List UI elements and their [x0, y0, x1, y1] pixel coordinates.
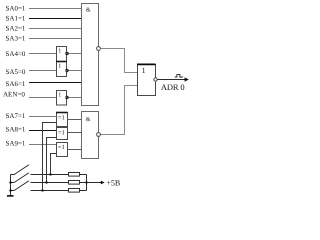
svg-text:ADR 0: ADR 0 [161, 82, 185, 92]
svg-text:=1: =1 [58, 129, 65, 136]
svg-text:=1: =1 [58, 114, 65, 121]
svg-text:SA5=0: SA5=0 [6, 68, 26, 76]
svg-text:&: & [86, 7, 91, 14]
svg-text:SA9=1: SA9=1 [6, 140, 26, 148]
svg-text:1: 1 [58, 92, 61, 98]
svg-text:SA0=1: SA0=1 [6, 4, 26, 12]
svg-text:SA1=1: SA1=1 [6, 15, 26, 23]
svg-text:SA6=1: SA6=1 [6, 80, 26, 88]
svg-text:+5B: +5B [106, 178, 120, 187]
svg-text:SA3=1: SA3=1 [6, 34, 26, 42]
svg-text:=1: =1 [58, 144, 65, 151]
svg-text:1: 1 [142, 66, 146, 75]
svg-text:1: 1 [58, 48, 61, 54]
svg-text:AEN=0: AEN=0 [3, 90, 25, 98]
svg-text:1: 1 [58, 64, 61, 70]
svg-text:SA8=1: SA8=1 [6, 126, 26, 134]
svg-text:&: & [86, 116, 91, 123]
svg-text:SA4=0: SA4=0 [6, 50, 26, 58]
svg-text:SA2=1: SA2=1 [6, 24, 26, 32]
svg-text:SA7=1: SA7=1 [6, 112, 26, 120]
